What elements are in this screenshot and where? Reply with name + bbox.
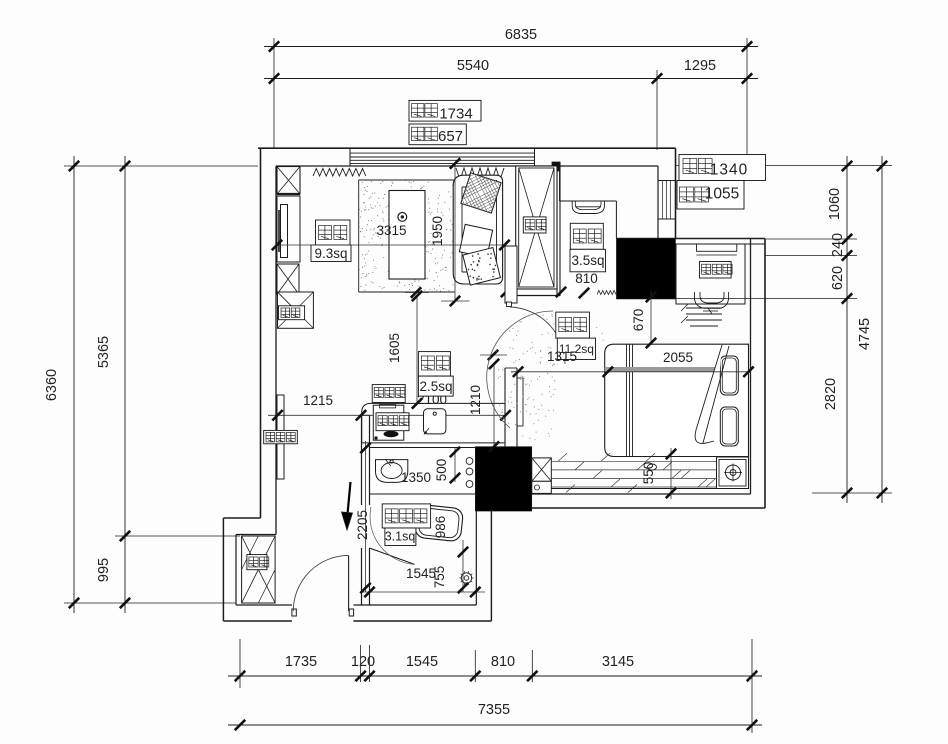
wall bottom inner right of door xyxy=(353,604,476,606)
wall bottom inner left of door xyxy=(236,604,292,606)
wood floor hatch bedroom xyxy=(551,461,716,487)
pillow dotted bottom xyxy=(463,248,501,286)
svg-text:5540: 5540 xyxy=(457,58,489,74)
quilt line 1 xyxy=(626,344,628,456)
column black study-bedroom xyxy=(616,239,675,300)
tv panel xyxy=(281,205,288,258)
dim line 1545 internal xyxy=(362,591,486,593)
entrance arrow xyxy=(348,482,351,514)
nightstand speaker bedroom xyxy=(717,457,749,489)
door jamb block left xyxy=(292,609,296,616)
kitchen counter xyxy=(362,403,505,443)
svg-text:2055: 2055 xyxy=(663,350,693,365)
label box 3.5sq xyxy=(570,249,606,271)
svg-text:1950: 1950 xyxy=(430,216,445,246)
extension line x274 xyxy=(273,38,275,148)
svg-text:810: 810 xyxy=(575,271,598,286)
internal dim 3315 line xyxy=(277,244,505,246)
extension line bottom x240 xyxy=(239,639,241,688)
label box 热水机 xyxy=(376,413,409,431)
svg-text:986: 986 xyxy=(433,516,448,539)
svg-text:670: 670 xyxy=(631,309,646,332)
wall bathroom west outer lower xyxy=(361,548,363,605)
wall top inner xyxy=(276,165,658,167)
svg-text:6835: 6835 xyxy=(505,27,537,43)
dim line top 5540/1295 xyxy=(264,78,758,80)
svg-text:2.5sq: 2.5sq xyxy=(419,379,452,394)
svg-text:810: 810 xyxy=(491,654,515,670)
pillow crosshatch top xyxy=(461,173,501,213)
extension line y255 xyxy=(765,255,857,257)
tv cabinet xyxy=(277,196,300,262)
label box 厨房 xyxy=(418,352,450,377)
label box 客厅 xyxy=(316,220,351,245)
svg-text:620: 620 xyxy=(830,266,846,290)
label box 鞋柜 xyxy=(247,555,267,570)
svg-text:755: 755 xyxy=(432,566,447,589)
tick wardrobe left xyxy=(501,287,511,297)
slipper ellipse xyxy=(648,464,657,470)
svg-text:7355: 7355 xyxy=(478,702,510,718)
bed xyxy=(605,344,749,456)
wall bedroom north inner xyxy=(676,243,766,245)
label box 书房 xyxy=(570,223,603,249)
dim line 500 xyxy=(454,448,456,482)
label box 卫生间 xyxy=(382,504,430,528)
wall right inner xyxy=(750,239,752,494)
wall study east inner xyxy=(657,166,659,239)
dim line left 6360 xyxy=(73,156,75,613)
washbasin xyxy=(376,460,408,483)
svg-text:657: 657 xyxy=(438,128,463,145)
wall bathroom west inner upper xyxy=(369,415,371,505)
wardrobe bottom band xyxy=(516,288,557,290)
svg-text:6360: 6360 xyxy=(44,369,60,401)
extension line y536 xyxy=(115,535,240,537)
circles fittings xyxy=(466,458,473,465)
svg-text:3145: 3145 xyxy=(602,654,634,670)
internal dim 1215/2100 line xyxy=(268,414,507,416)
dim line right 4745 xyxy=(881,156,883,503)
dim line top 6835 xyxy=(264,46,758,48)
wall top outer xyxy=(258,147,676,149)
sofa seat edge xyxy=(461,187,463,272)
coffee table xyxy=(389,191,425,280)
study chair xyxy=(572,201,604,213)
label box 装饰画 xyxy=(264,430,298,443)
thick shelf line xyxy=(277,193,300,195)
wall entrance left outer xyxy=(222,518,224,621)
wall bedroom north xyxy=(616,238,765,240)
short line rug bottom xyxy=(405,292,429,294)
short line corridor y301 xyxy=(441,300,470,302)
svg-text:1215: 1215 xyxy=(303,393,333,408)
pillow bedroom bottom xyxy=(720,407,738,446)
dim line 2205 xyxy=(365,441,367,592)
wall wardrobe right outer xyxy=(559,162,561,296)
column box top-left with X xyxy=(277,167,300,195)
svg-text:5365: 5365 xyxy=(96,336,112,368)
svg-text:9.3sq: 9.3sq xyxy=(314,246,347,261)
dresser chair xyxy=(700,292,724,303)
wall bathroom west inner lower xyxy=(369,548,371,605)
svg-text:995: 995 xyxy=(96,558,112,582)
label box 电磁炉 xyxy=(372,385,405,403)
wall entrance left inner xyxy=(235,535,237,606)
toilet xyxy=(461,573,471,583)
wall wardrobe right inner xyxy=(556,166,558,296)
dim line bottom 7355 xyxy=(228,724,762,726)
wall left outer xyxy=(260,148,262,518)
decorative painting strip xyxy=(277,395,284,479)
svg-text:1734: 1734 xyxy=(439,106,472,123)
dim line left 5365/995 xyxy=(124,156,126,613)
extension line y493 xyxy=(812,492,892,494)
door leaf rect xyxy=(517,378,523,426)
label box 窗高1734 xyxy=(409,100,481,121)
column black bathroom-bedroom xyxy=(475,447,532,512)
internal dim 1210 vertical xyxy=(493,364,495,447)
svg-text:1340: 1340 xyxy=(710,162,748,179)
label box 窗下1055 xyxy=(677,181,744,210)
bathroom door leaf xyxy=(370,548,415,564)
window top living room xyxy=(350,152,535,154)
tick study bottom xyxy=(579,288,589,298)
svg-text:1210: 1210 xyxy=(468,385,483,415)
sofa back line xyxy=(496,180,498,279)
bedroom door pier xyxy=(505,246,517,303)
rug living room dotted xyxy=(358,180,455,292)
dim line bottom 1735/120/1545/810/3145 xyxy=(228,675,762,677)
quilt band thick xyxy=(605,367,721,372)
shoe cabinet 鞋柜 xyxy=(242,536,276,603)
zigzag insulation study bottom xyxy=(597,291,616,295)
pillow bedroom top xyxy=(720,356,738,395)
svg-text:1055: 1055 xyxy=(705,186,739,203)
internal dim 670 vertical xyxy=(650,291,652,345)
fridge 冰箱 xyxy=(278,292,314,328)
wall bottom outer right of door xyxy=(353,620,491,622)
extension line y298 xyxy=(676,298,857,300)
sofa xyxy=(453,175,502,284)
wall bathroom east outer xyxy=(490,511,492,621)
svg-text:1295: 1295 xyxy=(684,58,716,74)
door jamb block right xyxy=(349,609,353,616)
wall block wardrobe top xyxy=(552,162,560,171)
extension line x657 xyxy=(656,70,658,150)
wall bathroom east inner xyxy=(475,509,477,605)
svg-text:1605: 1605 xyxy=(387,333,402,363)
bathroom vanity counter xyxy=(370,447,477,449)
extension line y166 xyxy=(64,165,258,167)
svg-text:3315: 3315 xyxy=(376,223,406,238)
svg-text:4745: 4745 xyxy=(857,318,873,350)
svg-text:1060: 1060 xyxy=(827,188,843,220)
extension line bottom x752 xyxy=(751,639,753,733)
label box 衣柜 xyxy=(523,217,546,233)
label box 化妆桌 xyxy=(700,262,732,279)
kitchen stove unit xyxy=(373,405,404,440)
floor column box with X xyxy=(532,458,552,481)
quilt line 2 xyxy=(629,344,631,456)
dim line 755 xyxy=(462,540,464,592)
wall bedroom south outer xyxy=(532,507,765,509)
extension line x747 xyxy=(746,38,748,165)
label box 3.1sq xyxy=(385,528,416,546)
curtain zigzag left xyxy=(313,169,366,177)
dresser 化妆桌 xyxy=(676,244,745,304)
entrance door leaf xyxy=(348,555,350,611)
wall left inner xyxy=(275,166,277,535)
bench lines bedroom xyxy=(686,307,722,309)
extension line bottom x361 xyxy=(360,645,362,682)
extension line y239 xyxy=(765,238,857,240)
extension line bottom x370 xyxy=(369,645,371,682)
pendant light circle xyxy=(398,213,407,222)
svg-text:2820: 2820 xyxy=(823,378,839,410)
wall bottom outer left of door xyxy=(223,620,292,622)
wall cap xyxy=(362,414,370,416)
rug left edge xyxy=(358,180,360,292)
rug top edge xyxy=(359,179,455,181)
svg-text:1735: 1735 xyxy=(285,654,317,670)
wall bathroom west outer upper xyxy=(361,415,363,505)
internal dim 550 vertical xyxy=(670,448,672,499)
label box 窗高1340 xyxy=(679,155,766,181)
door hinge block xyxy=(507,302,512,307)
internal dim 1950 vertical xyxy=(454,164,456,302)
svg-text:2205: 2205 xyxy=(355,510,370,540)
label box 9.3sq xyxy=(311,245,351,262)
label box 11.2sq xyxy=(557,338,595,359)
internal dim 1605 vertical xyxy=(416,296,418,404)
blanket fold xyxy=(695,345,722,443)
svg-text:240: 240 xyxy=(830,233,846,257)
svg-text:3.1sq: 3.1sq xyxy=(385,530,416,544)
svg-text:1545: 1545 xyxy=(406,654,438,670)
cabinet box lower with X xyxy=(277,264,299,294)
bedroom door swing arc xyxy=(510,307,565,364)
svg-text:500: 500 xyxy=(434,459,449,482)
internal dim 1315/2055 line xyxy=(511,371,751,373)
bedroom floor edge line xyxy=(532,488,717,490)
kitchen sink xyxy=(424,409,446,434)
svg-text:550: 550 xyxy=(641,462,656,485)
extension line bottom x475 xyxy=(474,650,476,682)
curtain zigzag right over sofa xyxy=(456,168,504,180)
wall study east outer xyxy=(675,148,677,238)
window study east 1340 xyxy=(658,180,676,182)
label box 窗下657 xyxy=(409,124,466,145)
svg-text:1350: 1350 xyxy=(401,470,431,485)
label box 卧室 xyxy=(556,312,590,338)
wall jog inner xyxy=(236,534,276,536)
study desk xyxy=(560,200,617,202)
svg-text:1315: 1315 xyxy=(547,349,577,364)
extension line y165 right xyxy=(675,165,892,167)
wardrobe 衣柜 xyxy=(516,166,557,289)
bedroom round rug dotted xyxy=(487,311,604,440)
rug bottom edge xyxy=(359,291,455,293)
svg-text:120: 120 xyxy=(351,654,375,670)
bathtub xyxy=(414,504,463,542)
svg-text:3.5sq: 3.5sq xyxy=(571,253,604,268)
label box 2.5sq xyxy=(418,376,453,396)
wall jog outer xyxy=(223,517,260,519)
tick wardrobe right xyxy=(556,287,566,297)
pillow plain middle xyxy=(459,224,492,257)
wall bedroom west segment xyxy=(505,367,517,369)
wall right outer xyxy=(764,239,766,509)
dim line right 1060/240/620/2820 xyxy=(846,156,848,503)
wall bedroom south inner xyxy=(532,493,751,495)
quilt line 3 xyxy=(632,344,634,456)
extension line bottom x532 xyxy=(531,650,533,682)
extension line y603 xyxy=(64,602,236,604)
